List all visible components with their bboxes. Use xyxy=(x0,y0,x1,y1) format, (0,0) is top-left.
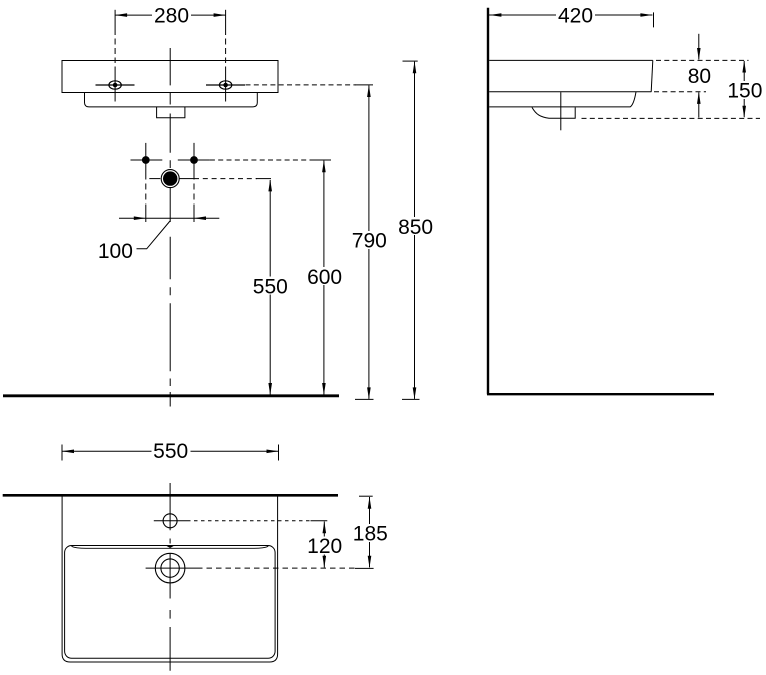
svg-text:185: 185 xyxy=(353,523,388,546)
svg-text:280: 280 xyxy=(154,5,189,28)
svg-text:550: 550 xyxy=(153,440,188,463)
svg-text:80: 80 xyxy=(688,65,711,88)
svg-text:100: 100 xyxy=(98,240,133,263)
svg-text:420: 420 xyxy=(558,4,593,27)
svg-text:120: 120 xyxy=(307,535,342,558)
svg-text:850: 850 xyxy=(398,216,433,239)
svg-text:550: 550 xyxy=(253,275,288,298)
svg-text:790: 790 xyxy=(352,230,387,253)
svg-text:150: 150 xyxy=(727,80,762,103)
svg-text:600: 600 xyxy=(307,266,342,289)
